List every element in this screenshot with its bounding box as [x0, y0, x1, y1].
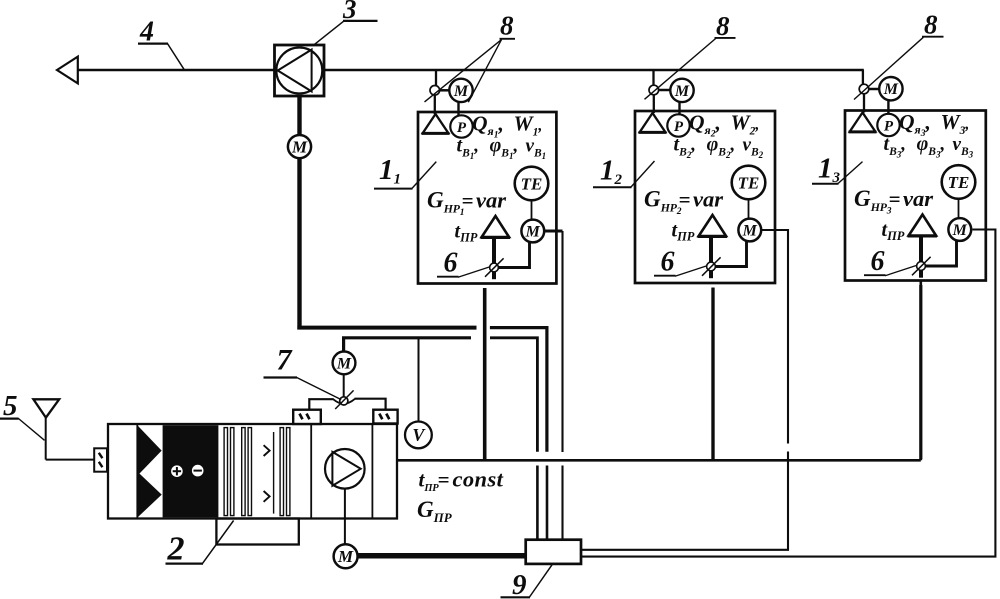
svg-text:TE: TE: [948, 173, 970, 192]
svg-text:M: M: [525, 223, 541, 240]
svg-text:M: M: [337, 547, 354, 566]
svg-text:M: M: [336, 355, 352, 372]
svg-text:5: 5: [3, 390, 18, 422]
svg-text:TE: TE: [738, 174, 760, 193]
svg-text:2: 2: [167, 531, 185, 568]
svg-text:7: 7: [277, 344, 293, 377]
svg-text:M: M: [742, 222, 758, 239]
svg-text:6: 6: [871, 246, 885, 277]
svg-text:6: 6: [444, 248, 458, 279]
svg-text:M: M: [952, 222, 968, 239]
svg-text:8: 8: [716, 11, 730, 41]
svg-text:M: M: [291, 137, 308, 156]
svg-text:8: 8: [924, 10, 938, 40]
svg-text:8: 8: [500, 11, 514, 41]
svg-text:M: M: [883, 81, 899, 98]
svg-text:TE: TE: [521, 175, 543, 194]
svg-text:6: 6: [661, 247, 675, 278]
svg-text:M: M: [674, 83, 690, 100]
svg-text:9: 9: [512, 569, 527, 599]
svg-text:M: M: [453, 83, 469, 100]
svg-text:V: V: [412, 425, 426, 445]
